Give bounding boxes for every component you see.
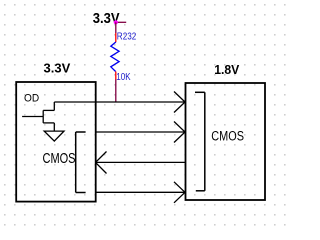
svg-text:OD: OD bbox=[24, 92, 40, 104]
svg-text:1.8V: 1.8V bbox=[214, 62, 240, 76]
svg-text:CMOS: CMOS bbox=[211, 128, 244, 144]
svg-text:3.3V: 3.3V bbox=[44, 60, 71, 75]
svg-text:R232: R232 bbox=[117, 31, 137, 42]
svg-text:CMOS: CMOS bbox=[43, 149, 76, 166]
svg-text:10K: 10K bbox=[116, 71, 130, 82]
